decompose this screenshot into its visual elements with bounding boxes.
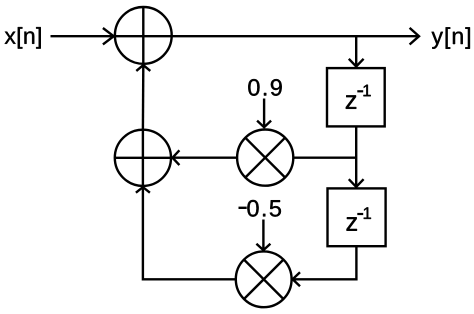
arrowhead into delay Z1 xyxy=(349,59,364,67)
wire delay tap to multiplier M1 xyxy=(293,156,356,158)
delay block Z2 xyxy=(328,188,386,246)
wire multiplier M2 output left and up to adder U2 xyxy=(143,187,236,279)
label z of delay Z2 xyxy=(347,217,357,230)
value label 0.9 xyxy=(248,79,281,96)
delay block Z1 xyxy=(327,68,385,126)
arrowhead into multiplier M2 from above xyxy=(256,244,270,250)
adder U2 (summing junction, middle) xyxy=(115,130,171,186)
label z of delay Z1 xyxy=(346,95,356,108)
multiplier M2 (-0.5 gain) xyxy=(236,251,292,307)
label exponent -1 of delay Z1 xyxy=(357,90,363,92)
wire multiplier M1 output to adder U2 xyxy=(172,156,237,158)
multiplier M1 (0.9 gain) xyxy=(237,130,293,186)
arrowhead into adder U1 from x[n] xyxy=(103,28,114,44)
arrowhead into multiplier M1 from above xyxy=(257,121,271,128)
wire coefficient -0.5 into multiplier M2 xyxy=(262,220,264,251)
label exponent -1 of delay Z2 xyxy=(357,213,363,215)
arrowhead into adder U1 from below xyxy=(136,65,150,71)
wire coefficient 0.9 into multiplier M1 xyxy=(263,99,265,128)
adder U1 (summing junction, top) xyxy=(115,7,172,64)
wire branch from main line down to delay Z1 xyxy=(355,36,357,66)
arrowhead into delay Z2 xyxy=(349,179,364,187)
wire main signal line x[n] to y[n] xyxy=(51,35,420,37)
value label -0.5 xyxy=(239,207,247,209)
arrowhead at y[n] output xyxy=(410,28,419,45)
arrowhead into multiplier M2 from right xyxy=(293,272,300,286)
wire delay Z2 output down and left to multiplier M2 xyxy=(293,246,357,279)
arrowhead into adder U2 from below xyxy=(136,187,150,193)
arrowhead into adder U2 from right xyxy=(173,150,180,165)
node y[n] output label xyxy=(432,27,470,48)
wire delay Z1 to delay Z2 xyxy=(355,126,357,187)
wire adder U2 output up to adder U1 xyxy=(142,65,145,130)
node x[n] input label xyxy=(5,27,41,48)
